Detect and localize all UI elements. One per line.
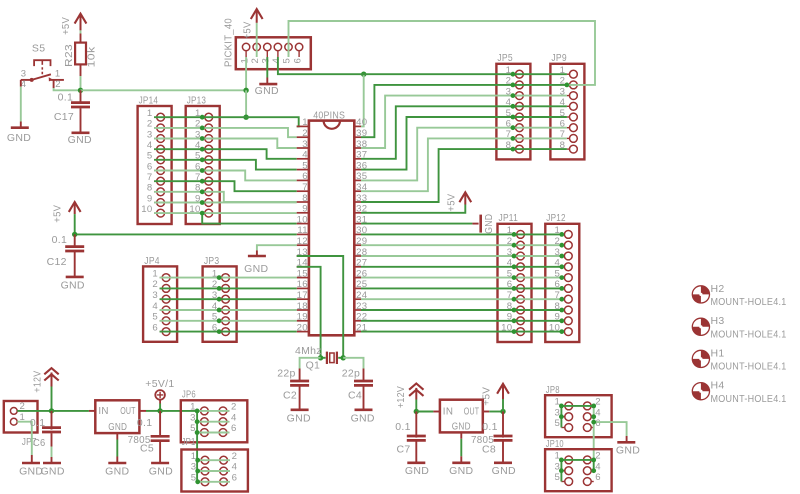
svg-text:5: 5 — [152, 312, 158, 323]
power +12V symbol bottom left — [32, 368, 59, 393]
wire JP4/JP3 pin5 to IC pin19 — [160, 320, 297, 322]
junction JP5 row1 at IC pin40 branch — [361, 72, 366, 77]
mount hole H1 — [692, 347, 786, 372]
svg-text:9: 9 — [147, 193, 153, 204]
wire JP14/JP13 pin9 to IC pin8 — [154, 201, 297, 203]
wire IC pin13 to crystal right node — [297, 256, 344, 358]
junction crystal right — [341, 355, 346, 360]
connector PICKIT_40 header — [223, 18, 311, 69]
svg-text:22p: 22p — [342, 367, 360, 379]
wire IC pin28 to JP11/JP12 pin3 — [361, 255, 562, 257]
svg-text:2: 2 — [231, 402, 237, 413]
svg-text:GND: GND — [61, 280, 85, 292]
svg-text:+5V: +5V — [60, 17, 72, 35]
svg-text:H1: H1 — [711, 347, 725, 359]
ground under PICKIT — [255, 84, 279, 97]
wire IC pin34 to JP5 pin7 — [361, 138, 567, 191]
svg-text:8: 8 — [147, 183, 153, 194]
wire JP6 pins 1-3-5 vertical to JP1 — [196, 411, 198, 482]
wire JP14/JP13 pin4 to IC pin4 — [154, 149, 297, 159]
svg-text:4Mhz: 4Mhz — [295, 345, 322, 357]
junction dots JP10 — [559, 458, 596, 474]
svg-text:GND: GND — [7, 132, 31, 144]
wire +5V to R23 — [80, 30, 82, 33]
connector JP3 header — [203, 255, 237, 342]
svg-text:JP9: JP9 — [551, 52, 567, 64]
wires JP1 rows — [198, 460, 230, 482]
wire IC pin23 to JP11/JP12 pin8 — [361, 309, 562, 311]
svg-text:6: 6 — [231, 423, 237, 434]
mount hole H4 — [692, 380, 786, 405]
svg-text:3: 3 — [147, 129, 153, 140]
ground under C12 — [61, 277, 85, 292]
wire 7805 OUT to +5V/1 node — [139, 410, 160, 412]
voltage regulator IC1 7805 — [95, 400, 150, 446]
svg-text:20: 20 — [297, 322, 308, 333]
junction dots JP11 pins — [512, 232, 517, 334]
svg-text:15: 15 — [297, 268, 308, 279]
svg-text:0.1: 0.1 — [52, 234, 68, 246]
svg-text:6: 6 — [595, 472, 601, 483]
capacitor C5 0.1 — [137, 411, 170, 463]
svg-text:GND: GND — [68, 134, 92, 146]
wire JP7 pin2 to junction — [17, 410, 51, 412]
wire IC pin25 to JP11/JP12 pin6 — [361, 287, 562, 289]
svg-text:JP5: JP5 — [497, 52, 513, 64]
wire JP14/JP13 pin3 to IC pin3 — [154, 139, 297, 149]
svg-text:2: 2 — [595, 451, 601, 462]
wire R23 to node A — [80, 76, 82, 90]
svg-text:H4: H4 — [711, 380, 725, 392]
connector JP12 header — [545, 212, 579, 342]
svg-text:+5V: +5V — [242, 21, 254, 39]
svg-text:PICKIT_40: PICKIT_40 — [223, 18, 235, 67]
ground under C2 — [287, 410, 311, 425]
svg-text:JP6: JP6 — [182, 388, 196, 400]
wire junction to IC pin11 — [75, 233, 297, 235]
wire JP4/JP3 pin6 to IC pin20 — [160, 331, 297, 333]
svg-text:0.1: 0.1 — [30, 417, 46, 429]
wire IC pin22 to JP11/JP12 pin9 — [361, 320, 562, 322]
crystal Q1 4Mhz — [295, 345, 343, 371]
switch S5 — [21, 43, 64, 90]
svg-text:OUT: OUT — [120, 406, 136, 417]
svg-text:Q1: Q1 — [306, 359, 321, 371]
svg-text:2: 2 — [302, 128, 308, 139]
svg-text:GND: GND — [244, 263, 268, 275]
wire JP4/JP3 pin2 to IC pin16 — [160, 287, 297, 289]
wire IC pin32 to +5V — [361, 205, 465, 213]
wire IC pin39 to JP5 pin2 — [361, 85, 567, 137]
svg-text:12: 12 — [297, 236, 308, 247]
svg-text:6: 6 — [152, 322, 158, 333]
svg-text:10: 10 — [297, 214, 308, 225]
svg-text:7: 7 — [302, 182, 308, 193]
svg-text:7: 7 — [147, 172, 153, 183]
wire IC pin12 to ground — [257, 245, 297, 250]
ground right of JP8 — [616, 442, 640, 456]
wire 7805 GND pin to ground — [116, 433, 118, 463]
svg-text:GND: GND — [40, 465, 64, 477]
svg-text:1: 1 — [152, 268, 158, 279]
wire node A to PICKIT junction — [81, 89, 247, 91]
ground under 7805 right — [449, 463, 473, 477]
wire JP7 pin1 to ground — [17, 422, 32, 463]
svg-text:6: 6 — [147, 161, 153, 172]
svg-text:GND: GND — [452, 421, 471, 432]
IC U1 40PINS body — [309, 110, 354, 336]
svg-text:9: 9 — [302, 204, 308, 215]
svg-text:2: 2 — [232, 451, 238, 462]
svg-text:+12V: +12V — [395, 386, 407, 408]
resistor R23 10K — [63, 34, 98, 77]
junction dots JP8 — [559, 404, 596, 425]
wire JP14/JP13 pin8 to IC pin8 — [154, 192, 297, 202]
wire IC pin31 to ground — [361, 223, 472, 225]
wire JP5 row1 continues to JP9 pin1 — [0, 0, 1, 1]
wire JP8 right pins vertical down to JP10 — [593, 406, 595, 460]
svg-text:1: 1 — [147, 108, 153, 119]
ground under C6 — [40, 463, 64, 477]
wire IC pin33 to JP5 pin8 — [361, 149, 567, 202]
svg-text:6: 6 — [595, 418, 601, 429]
svg-text:2: 2 — [147, 119, 153, 130]
power +5V symbol left middle — [52, 202, 81, 223]
wire +5V down to junction — [74, 214, 76, 234]
IC pin stubs and numbers left side pins 1-20 — [297, 117, 309, 333]
wire PICKIT pin4 to JP5 row1 long net — [278, 57, 567, 74]
junction on JP13 pin1 wire — [243, 115, 248, 120]
mount hole H3 — [692, 315, 786, 340]
svg-text:C4: C4 — [348, 389, 362, 401]
wire JP14/JP13 pin10 to IC pin9 — [154, 212, 297, 214]
svg-text:C2: C2 — [283, 389, 297, 401]
svg-text:8: 8 — [302, 193, 308, 204]
svg-text:GND: GND — [149, 465, 173, 477]
capacitor C7 0.1 — [395, 412, 426, 463]
svg-text:GND: GND — [105, 465, 129, 477]
capacitor C8 0.1 — [482, 412, 513, 463]
wire JP14/JP13 pin1 to IC pin1 — [154, 117, 299, 126]
ground under C17 — [68, 133, 92, 146]
ground under 7805 — [105, 463, 129, 477]
svg-text:0.1: 0.1 — [137, 417, 153, 429]
svg-text:MOUNT-HOLE4.1: MOUNT-HOLE4.1 — [711, 329, 787, 341]
svg-text:JP11: JP11 — [499, 212, 519, 224]
wire JP14/JP13 pin5 to IC pin5 — [154, 160, 297, 170]
junction C12 node — [72, 232, 77, 237]
ground under C7 — [405, 463, 429, 477]
svg-text:4: 4 — [302, 150, 308, 161]
svg-text:4: 4 — [595, 461, 601, 472]
wire JP13 pin10 branch to IC pin10 — [202, 213, 297, 224]
junction dots JP6 left pins — [195, 409, 200, 435]
svg-text:C7: C7 — [396, 444, 410, 456]
svg-text:11: 11 — [297, 225, 308, 236]
wire IC pin36 to JP5 pin5 — [361, 117, 567, 170]
junction 7805 OUT node — [157, 408, 162, 413]
capacitor C12 0.1 — [47, 234, 85, 277]
svg-text:0.1: 0.1 — [58, 91, 74, 103]
svg-text:JP3: JP3 — [204, 255, 220, 267]
svg-text:22p: 22p — [277, 367, 295, 379]
svg-text:GND: GND — [108, 422, 127, 433]
svg-text:4: 4 — [147, 140, 153, 151]
svg-text:17: 17 — [297, 290, 308, 301]
svg-text:1: 1 — [55, 69, 61, 80]
svg-text:H2: H2 — [711, 283, 725, 295]
wire PICKIT pin1 down to node A wire — [245, 57, 247, 90]
svg-text:+5V: +5V — [445, 194, 457, 212]
connector JP13 header — [186, 95, 220, 225]
junction PICKIT pin1 net — [243, 88, 248, 93]
power +12V symbol bottom right — [395, 384, 423, 409]
svg-text:2: 2 — [152, 279, 158, 290]
wire junction down to JP13 pin1 row — [245, 90, 247, 117]
svg-text:C12: C12 — [47, 256, 67, 268]
svg-text:+5V: +5V — [481, 387, 493, 406]
svg-text:GND: GND — [483, 214, 495, 234]
svg-text:40: 40 — [356, 117, 367, 128]
wire JP4/JP3 pin4 to IC pin18 — [160, 309, 297, 311]
wire +5V/1 to OUT junction — [159, 404, 161, 411]
svg-text:5: 5 — [302, 160, 308, 171]
svg-text:5: 5 — [147, 151, 153, 162]
wire junction to 7805 IN right — [416, 411, 440, 413]
wire OUT junction to JP6 pin1 — [160, 410, 197, 412]
wire JP10 left pins vertical — [560, 460, 562, 482]
svg-text:0.1: 0.1 — [395, 421, 411, 433]
svg-text:5: 5 — [282, 58, 293, 63]
wire +5V to PICKIT pin2 — [256, 23, 258, 57]
wire IC pin30 to JP11/JP12 pin1 — [361, 233, 562, 235]
svg-text:2: 2 — [595, 397, 601, 408]
junction dots JP3 pins — [217, 275, 222, 334]
wire IC pin14 to crystal left node — [297, 267, 321, 358]
svg-text:5: 5 — [554, 418, 560, 429]
connector JP6 header — [181, 388, 248, 442]
svg-text:1: 1 — [302, 117, 308, 128]
capacitor C4 22p — [342, 367, 373, 409]
wire IC pin24 to JP11/JP12 pin7 — [361, 298, 562, 300]
svg-text:JP8: JP8 — [546, 384, 560, 396]
wire 7805 right GND pin to ground — [460, 432, 462, 462]
capacitor C2 22p — [277, 367, 309, 409]
svg-text:MOUNT-HOLE4.1: MOUNT-HOLE4.1 — [711, 361, 787, 373]
svg-text:S5: S5 — [32, 43, 45, 55]
wire +12V right to junction — [415, 400, 417, 412]
wire IC pin29 to JP11/JP12 pin2 — [361, 244, 562, 246]
connector JP14 header — [138, 95, 172, 225]
svg-text:4: 4 — [232, 462, 238, 473]
wire crystal right to C4 — [343, 358, 363, 369]
wire JP14/JP13 pin2 to IC pin2 — [154, 128, 297, 137]
wire JP10 right pins vertical — [593, 460, 595, 471]
wire IC pin35 to JP5 pin6 — [361, 128, 567, 181]
svg-text:GND: GND — [492, 465, 516, 477]
IC pin stubs and numbers right side pins 40-21 — [354, 117, 367, 333]
wire S5 pin4 to ground — [20, 80, 22, 128]
wire IC pin38 to JP5 pin3 — [361, 96, 567, 148]
svg-text:C6: C6 — [33, 437, 46, 449]
svg-text:MOUNT-HOLE4.1: MOUNT-HOLE4.1 — [711, 296, 787, 308]
svg-text:4: 4 — [152, 301, 158, 312]
svg-text:16: 16 — [297, 279, 308, 290]
svg-text:6: 6 — [232, 472, 238, 483]
wire S5 pin2 to node A — [54, 80, 81, 90]
svg-text:10k: 10k — [86, 46, 98, 68]
ground under S5 — [7, 128, 31, 145]
power +5V symbol bottom right — [481, 384, 509, 406]
wire JP8 to ground — [594, 422, 627, 442]
junction 7805 right OUT node — [500, 409, 505, 414]
ground under JP7 pin1 — [19, 463, 43, 477]
svg-text:JP10: JP10 — [546, 438, 564, 450]
power +5V symbol top left — [60, 14, 87, 35]
svg-text:JP13: JP13 — [187, 95, 207, 107]
wire crystal left to C2 — [300, 358, 321, 369]
svg-text:IN: IN — [98, 406, 108, 417]
svg-text:4: 4 — [271, 58, 282, 64]
capacitor C17 0.1 — [54, 90, 90, 133]
svg-text:GND: GND — [405, 465, 429, 477]
svg-text:GND: GND — [255, 85, 279, 97]
svg-text:40PINS: 40PINS — [313, 110, 345, 122]
svg-text:3: 3 — [261, 58, 272, 63]
svg-text:C17: C17 — [54, 111, 74, 123]
wire 7805 right OUT to junction — [483, 411, 503, 413]
svg-text:JP12: JP12 — [546, 212, 566, 224]
connector JP7 — [4, 401, 38, 448]
connector JP5 header — [496, 52, 530, 160]
svg-text:C5: C5 — [140, 443, 154, 455]
wires JP6 rows — [197, 411, 229, 433]
capacitor C6 0.1 — [30, 411, 61, 463]
wire IC pin21 to JP11/JP12 pin10 — [361, 331, 562, 333]
wire JP4/JP3 pin3 to IC pin17 — [160, 298, 297, 300]
connector JP9 header — [550, 52, 584, 160]
svg-text:0.1: 0.1 — [482, 421, 498, 433]
svg-text:1: 1 — [239, 58, 250, 63]
svg-text:R23: R23 — [63, 44, 75, 67]
svg-text:IN: IN — [443, 407, 453, 418]
ground under C5 — [149, 463, 173, 477]
svg-text:4: 4 — [595, 407, 601, 418]
junction crystal left — [318, 355, 323, 360]
node A junction — [78, 88, 83, 93]
junction dots JP12 pins — [559, 232, 564, 334]
svg-text:+5V: +5V — [52, 205, 64, 223]
connector JP11 header — [498, 212, 532, 342]
wire JP14/JP13 pin6 to IC pin6 — [154, 171, 297, 181]
svg-text:GND: GND — [287, 413, 311, 425]
svg-text:JP1: JP1 — [182, 436, 196, 448]
junction dots JP5 pins — [511, 72, 516, 152]
svg-text:3: 3 — [302, 139, 308, 150]
wire PICKIT pin3 to ground — [266, 57, 268, 84]
wire JP8 left pins vertical — [560, 406, 562, 428]
wire JP8 row1 horizontal — [561, 405, 593, 407]
svg-text:JP4: JP4 — [144, 255, 160, 267]
svg-text:18: 18 — [297, 301, 308, 312]
svg-text:OUT: OUT — [464, 407, 480, 418]
junction dots JP1 left pins — [195, 458, 200, 484]
svg-text:+5V/1: +5V/1 — [145, 378, 174, 390]
ground under IC pin12 — [244, 250, 268, 275]
wire JP14/JP13 pin7 to IC pin7 — [154, 181, 297, 191]
svg-text:19: 19 — [297, 312, 308, 323]
junction dot JP9 pin2 — [565, 83, 570, 88]
wire IC pin27 to JP11/JP12 pin4 — [361, 266, 562, 268]
voltage regulator IC2 7805 — [440, 400, 494, 447]
mount hole H2 — [692, 283, 786, 308]
svg-text:2: 2 — [55, 79, 61, 90]
junction +12V input node — [49, 408, 54, 413]
wire IC pin37 to JP5 pin4 — [361, 106, 567, 159]
svg-text:3: 3 — [21, 69, 27, 80]
supply +5V/1 symbol — [145, 378, 174, 403]
junction +12V right node — [414, 409, 419, 414]
svg-text:10: 10 — [141, 204, 152, 215]
wire IC pin26 to JP11/JP12 pin5 — [361, 277, 562, 279]
svg-text:GND: GND — [351, 413, 375, 425]
svg-text:+12V: +12V — [32, 371, 44, 393]
wire PICKIT pin5 top route to JP9 pin2 — [289, 21, 596, 85]
ground symbol rotated right of IC — [472, 214, 495, 234]
connector JP4 header — [143, 255, 177, 342]
junction dots JP13 pins — [200, 115, 205, 216]
svg-text:JP14: JP14 — [139, 95, 159, 107]
svg-text:5: 5 — [554, 472, 560, 483]
power +5V symbol above PICKIT pin2 — [242, 9, 263, 39]
svg-text:MOUNT-HOLE4.1: MOUNT-HOLE4.1 — [711, 393, 787, 405]
wire +5V down to OUT junction — [502, 399, 504, 412]
wire JP10 row1 horizontal — [561, 459, 593, 461]
svg-text:H3: H3 — [711, 315, 725, 327]
wire IC pin40 branch vertical — [361, 74, 364, 126]
svg-text:6: 6 — [302, 171, 308, 182]
svg-text:GND: GND — [449, 465, 473, 477]
svg-text:3: 3 — [152, 290, 158, 301]
wire JP4/JP3 pin1 to IC pin15 — [160, 277, 297, 279]
ground under C8 — [492, 463, 516, 477]
svg-text:2: 2 — [250, 58, 261, 63]
svg-text:GND: GND — [616, 445, 640, 457]
connector JP8 header — [545, 384, 612, 437]
ground under C4 — [351, 410, 375, 425]
power +5V symbol right of IC — [445, 192, 471, 211]
wire junction to 7805 IN — [52, 410, 96, 412]
wire +12V to junction — [51, 387, 53, 411]
svg-text:4: 4 — [231, 412, 237, 423]
connector JP1 header — [181, 436, 248, 492]
svg-text:C8: C8 — [482, 444, 496, 456]
connector JP10 header — [545, 438, 612, 491]
svg-text:6: 6 — [292, 58, 303, 63]
